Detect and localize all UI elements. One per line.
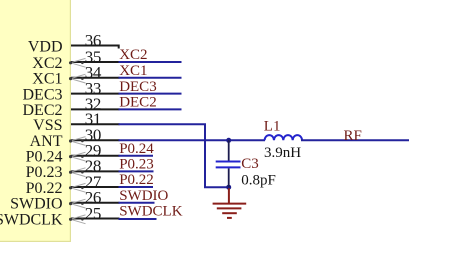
ground symbol (4 bars) [213,204,247,218]
junction dot VSS/C3 bottom [226,185,231,190]
pin 33 DEC3 [71,93,120,95]
inductor L1 [265,135,302,140]
svg-text:XC1: XC1 [119,63,147,79]
svg-text:P0.23: P0.23 [119,157,154,173]
svg-text:SWDIO: SWDIO [119,188,168,204]
wire net DEC2 [119,108,182,110]
svg-text:VDD: VDD [28,38,63,55]
wire net SWDCLK [119,218,157,220]
wire net DEC3 [119,93,182,95]
capacitor C3 plates [216,162,241,168]
pin 27 P0.22 [71,186,120,188]
svg-text:DEC2: DEC2 [119,95,157,111]
pin marker (input chevron) pin 27 [69,183,86,192]
pin 35 XC2 [71,61,120,63]
pin 28 P0.23 [71,170,120,172]
svg-text:P0.22: P0.22 [119,172,154,188]
pin marker (input chevron) pin 30 [69,137,86,146]
ground stem [228,188,230,203]
svg-text:P0.23: P0.23 [26,164,63,181]
wire net XC2 [119,61,182,63]
pin marker (input chevron) pin 25 [69,215,86,224]
pin 34 XC1 [71,77,120,79]
pin marker (input chevron) pin 29 [69,152,86,161]
svg-text:XC1: XC1 [32,71,62,88]
pin marker (input chevron) pin 35 [69,58,86,67]
pin 29 P0.24 [71,155,120,157]
IC body (partial, yellow) [0,0,71,242]
wire net P0.23 [119,170,154,172]
svg-text:C3: C3 [241,156,259,172]
svg-text:L1: L1 [264,119,281,135]
pin 26 SWDIO [71,202,120,204]
junction dot ANT/C3 top [226,138,231,143]
pin 32 DEC2 [71,108,120,110]
svg-text:DEC3: DEC3 [119,79,157,95]
wire net RF [301,139,409,141]
svg-text:P0.24: P0.24 [119,141,154,157]
svg-text:P0.24: P0.24 [26,149,63,166]
svg-text:3.9nH: 3.9nH [264,145,301,161]
pin 30 ANT [71,139,120,141]
pin 36 VDD [71,46,119,49]
svg-text:SWDCLK: SWDCLK [119,204,183,220]
wire net P0.22 [119,186,154,188]
pin 31 VSS [71,123,120,125]
svg-text:DEC3: DEC3 [23,86,63,103]
svg-text:0.8pF: 0.8pF [241,173,276,189]
capacitor C3 leads [228,140,230,187]
wire net SWDIO [119,202,155,204]
wire net ANT: pin 30 to inductor L1 [119,139,266,141]
pin marker (input chevron) pin 28 [69,168,86,177]
wire net XC1 [119,77,182,79]
wire net VSS: pin 31 right, down, to C3 bottom [119,124,229,187]
pin marker (input chevron) pin 26 [69,199,86,208]
svg-text:P0.22: P0.22 [26,180,63,197]
svg-text:SWDIO: SWDIO [10,196,62,213]
svg-text:SWDCLK: SWDCLK [0,211,63,228]
svg-text:VSS: VSS [33,117,62,134]
svg-text:25: 25 [85,204,101,223]
svg-text:ANT: ANT [30,133,63,150]
pin 25 SWDCLK [71,218,120,220]
svg-text:XC2: XC2 [32,55,62,72]
pin marker (input chevron) pin 34 [69,74,86,83]
svg-text:XC2: XC2 [119,47,147,63]
svg-text:RF: RF [344,128,362,144]
wire net P0.24 [119,155,154,157]
